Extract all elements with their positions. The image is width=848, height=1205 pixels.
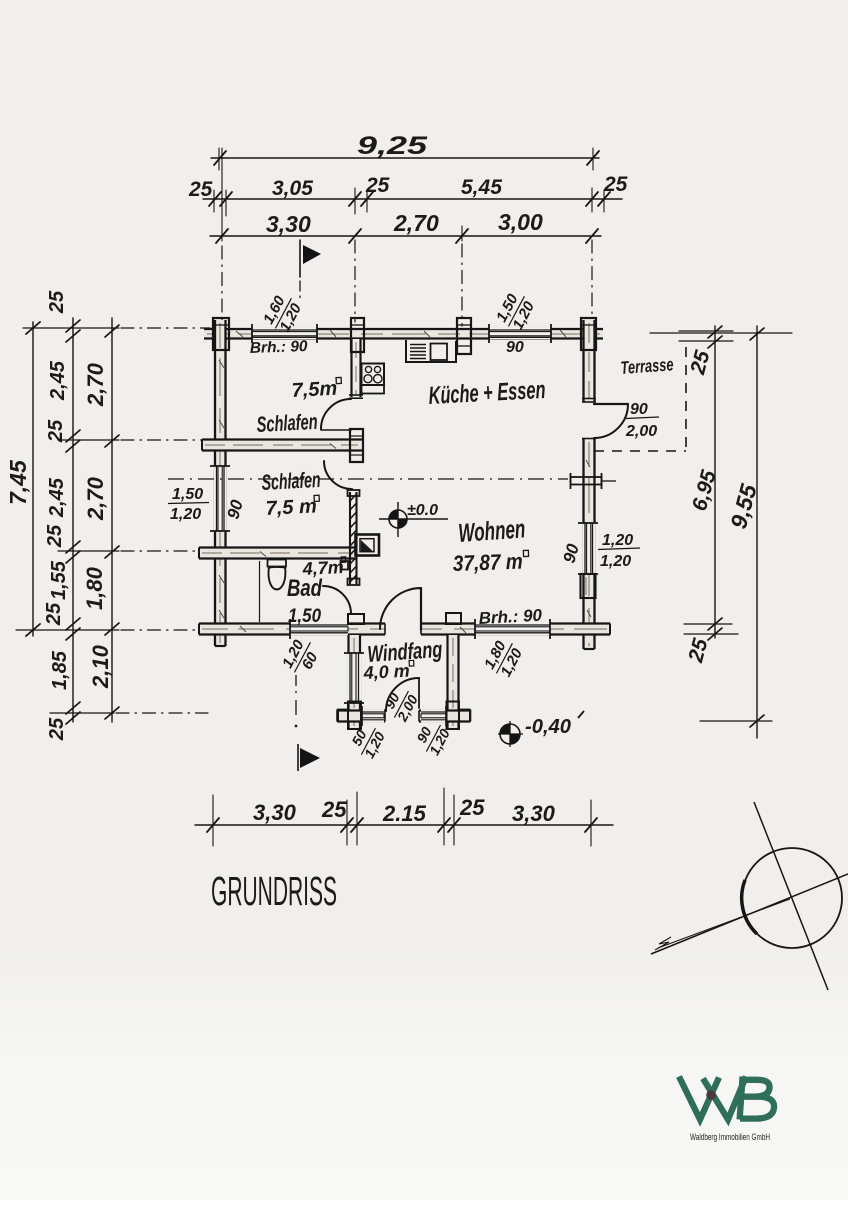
- svg-text:3,30: 3,30: [253, 800, 297, 825]
- door gap: [385, 708, 419, 724]
- svg-text:2,70: 2,70: [393, 210, 439, 236]
- elevation mark -0,40: [498, 711, 584, 747]
- Windfang left wall: [344, 635, 364, 729]
- svg-text:2,45: 2,45: [46, 477, 68, 518]
- svg-text:9,25: 9,25: [357, 132, 429, 160]
- svg-text:25: 25: [43, 602, 65, 626]
- svg-text:2.15: 2.15: [382, 801, 427, 826]
- hatched partition Wohnen side: [348, 490, 360, 585]
- post top wall kitchen: [457, 318, 471, 354]
- top exterior wall: [204, 324, 603, 343]
- post top-right corner: [581, 318, 596, 350]
- svg-text:5,45: 5,45: [461, 176, 502, 199]
- svg-text:Terrasse: Terrasse: [620, 354, 674, 378]
- fraction 1,20/1,20 right window: [598, 532, 640, 570]
- right exterior wall: [578, 320, 598, 649]
- post right wall below window: [581, 574, 596, 598]
- rotated fraction 50/1,20: [345, 720, 388, 762]
- left 2,70 line: [111, 318, 113, 722]
- fraction 90/2,00 terrace door: [625, 401, 659, 440]
- door gap Wohnen entry: [385, 621, 421, 636]
- partition Schlafen1/Kueche: [349, 339, 363, 398]
- sink: [431, 344, 448, 361]
- toilet: [268, 560, 287, 590]
- svg-text:Schlafen: Schlafen: [261, 467, 321, 495]
- rotated fraction 1,60/1,20 top-left window: [260, 290, 307, 336]
- svg-text:±0.0: ±0.0: [407, 502, 438, 519]
- chimney: [356, 535, 380, 556]
- svg-text:25: 25: [46, 717, 68, 741]
- vertical extension lines top: [221, 148, 223, 241]
- svg-text:25: 25: [321, 797, 347, 822]
- left exterior wall: [210, 320, 230, 646]
- interior wall Schlafen2/Bad: [199, 548, 356, 559]
- post windfang right top: [446, 613, 461, 624]
- junction bar right wall: [571, 473, 617, 489]
- svg-text:1,85: 1,85: [49, 650, 71, 690]
- window 50: [362, 709, 384, 722]
- window 1,50 left wall: [210, 466, 230, 531]
- post top-left corner: [213, 318, 229, 350]
- rotated fraction 1,80/1,20: [481, 635, 528, 681]
- svg-text:GRUNDRISS: GRUNDRISS: [211, 868, 337, 914]
- horizontal connectors left: [23, 327, 119, 329]
- svg-text:3,00: 3,00: [498, 209, 543, 235]
- svg-text:37,87 m: 37,87 m: [452, 549, 523, 576]
- svg-text:Wohnen: Wohnen: [457, 513, 526, 548]
- drain grate: [410, 345, 426, 359]
- svg-text:25: 25: [365, 174, 390, 197]
- svg-text:2,00: 2,00: [625, 423, 657, 440]
- svg-text:Schlafen: Schlafen: [256, 409, 318, 437]
- rotated fraction 1,50/1,20 top-right window: [493, 288, 540, 334]
- door Windfang entry: [386, 678, 419, 711]
- bottom exterior wall: [199, 619, 610, 639]
- rotated fraction 90/1,20: [410, 717, 453, 759]
- svg-text:1,20: 1,20: [170, 506, 201, 523]
- rotated fraction 90/2,00 windfang door: [378, 683, 421, 725]
- window 1,20 right wall: [578, 523, 598, 574]
- svg-text:2,70: 2,70: [83, 362, 108, 407]
- svg-text:3,05: 3,05: [272, 177, 313, 200]
- svg-text:3,30: 3,30: [266, 211, 311, 237]
- svg-text:7,45: 7,45: [5, 459, 31, 505]
- svg-text:Bad: Bad: [287, 575, 323, 602]
- interior wall Schlafen1/Schlafen2: [202, 440, 362, 451]
- dash-dot extensions down to wall: [222, 240, 592, 326]
- svg-text:25: 25: [603, 173, 628, 196]
- 6,95 line: [714, 326, 716, 638]
- horizontal section dash-dot line: [168, 478, 568, 480]
- post top wall mid: [351, 318, 364, 352]
- Windfang bottom wall: [338, 706, 470, 726]
- door Wohnen/Windfang: [380, 588, 421, 630]
- svg-text:1,50: 1,50: [172, 486, 203, 503]
- small post at chimney junction: [341, 561, 349, 570]
- 9,55 line: [756, 326, 758, 738]
- terrace door jamb caps: [582, 398, 596, 400]
- svg-text:Waldberg Immobilien GmbH: Waldberg Immobilien GmbH: [690, 1132, 770, 1142]
- svg-text:25: 25: [459, 795, 485, 820]
- window 1,20 windfang left: [347, 653, 361, 703]
- svg-text:1,55: 1,55: [48, 560, 70, 600]
- section cut flag top: [300, 240, 321, 301]
- window 1,60 top-left: [252, 324, 317, 343]
- svg-text:4,0 m: 4,0 m: [362, 661, 410, 683]
- svg-text:1,80: 1,80: [82, 566, 107, 610]
- svg-text:7,5 m: 7,5 m: [265, 495, 317, 520]
- window 90: [421, 709, 446, 722]
- post windfang left top: [348, 614, 364, 624]
- svg-text:25: 25: [44, 524, 66, 548]
- svg-text:1,20: 1,20: [602, 532, 633, 549]
- svg-text:3,30: 3,30: [512, 801, 556, 826]
- svg-text:90: 90: [630, 401, 648, 418]
- windfang bottom-left corner post: [337, 702, 361, 730]
- thin partition line in Bad: [259, 561, 261, 622]
- left chain line: [72, 318, 74, 722]
- svg-text:2,10: 2,10: [88, 644, 113, 689]
- section cut flag bottom: [295, 675, 320, 771]
- svg-text:1,50: 1,50: [288, 606, 321, 627]
- door Schlafen1: [321, 399, 351, 430]
- dim chain line 25/3,05/25/5,45/25: [188, 173, 628, 216]
- svg-text:2,70: 2,70: [83, 476, 108, 521]
- 7,45 line: [32, 322, 34, 636]
- svg-text:7,5m: 7,5m: [291, 378, 338, 402]
- svg-text:90: 90: [506, 339, 524, 356]
- window 1,50 top-right: [489, 324, 551, 343]
- kitchen counter: [406, 340, 456, 362]
- svg-text:Brh.: 90: Brh.: 90: [478, 606, 543, 628]
- door Bad: [323, 586, 351, 614]
- post mid-wall door jamb: [350, 429, 363, 462]
- window 1,50 bottom (Bad): [290, 619, 348, 639]
- dim line 9,25: [211, 132, 599, 170]
- Windfang right wall: [448, 635, 459, 729]
- door Terrasse: [594, 404, 628, 438]
- door Schlafen2: [324, 461, 352, 489]
- svg-text:-0,40: -0,40: [525, 716, 571, 738]
- windfang bottom-right corner post: [447, 702, 471, 730]
- svg-text:Brh.: 90: Brh.: 90: [250, 338, 309, 357]
- window 1,80 bottom (Wohnen): [475, 619, 550, 639]
- rotated fraction 1,20/60 windfang left: [279, 634, 326, 680]
- fraction 1,50/1,20 left window: [168, 486, 209, 523]
- svg-text:25: 25: [46, 290, 68, 314]
- dim line 3,30/2,70/3,00: [210, 209, 601, 243]
- svg-text:25: 25: [188, 178, 213, 201]
- stove: [362, 364, 385, 386]
- elevation mark +-0.0: [379, 502, 448, 537]
- svg-text:2,45: 2,45: [47, 360, 69, 401]
- svg-text:1,20: 1,20: [600, 553, 631, 570]
